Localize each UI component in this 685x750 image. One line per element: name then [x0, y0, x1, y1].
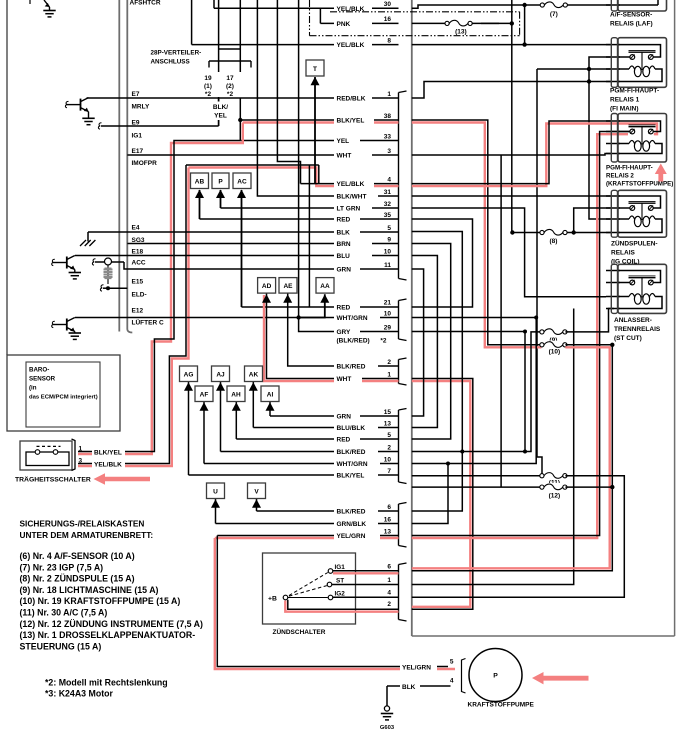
connector AI	[261, 386, 279, 402]
ECM/PCM left wall (double line)	[118, 0, 120, 332]
connector AE	[279, 278, 297, 294]
svg-text:BARO-: BARO-	[29, 367, 49, 374]
svg-text:(7) Nr. 23 IGP (7,5 A): (7) Nr. 23 IGP (7,5 A)	[20, 562, 104, 572]
svg-text:BLK/WHT: BLK/WHT	[337, 194, 367, 201]
svg-text:ELD-: ELD-	[132, 292, 147, 299]
svg-text:9: 9	[387, 236, 391, 243]
svg-text:1: 1	[387, 577, 391, 584]
nested elbow: BRN9 to pin5	[412, 244, 451, 440]
junction fuse 7 feed	[522, 3, 526, 7]
wire pin1 row continuation to relay1	[412, 82, 612, 99]
svg-text:ZÜNDSPULEN-: ZÜNDSPULEN-	[611, 239, 658, 248]
svg-text:6: 6	[387, 504, 391, 511]
red arrow (fuel pump)	[532, 672, 589, 684]
svg-text:21: 21	[384, 299, 392, 306]
connector AD	[258, 278, 276, 294]
wire E15 row from ELD	[106, 286, 110, 290]
svg-text:4: 4	[450, 678, 454, 685]
wire fuse 8 row to ignition coil relay coil	[512, 232, 611, 234]
wire SG3 BRN pin 9 row	[127, 243, 398, 245]
svg-text:*2: *2	[227, 91, 234, 98]
wire YEL/GRN pump label	[400, 662, 437, 671]
wire vertical V4 from top	[298, 0, 300, 318]
svg-text:PGM-FI-HAUPT-: PGM-FI-HAUPT-	[610, 88, 659, 95]
wire GRN/BLK pin 16 row (to U)	[215, 499, 217, 524]
svg-text:4: 4	[387, 176, 391, 183]
svg-text:E4: E4	[132, 225, 140, 232]
transistor Q3 (E12 driver)	[66, 319, 68, 331]
svg-text:33: 33	[384, 133, 392, 140]
fuse (9)	[544, 328, 563, 336]
svg-text:E17: E17	[132, 148, 144, 155]
svg-text:(8) Nr. 2 ZÜNDSPULE (15 A): (8) Nr. 2 ZÜNDSPULE (15 A)	[20, 574, 135, 584]
svg-text:RED: RED	[337, 217, 351, 224]
svg-text:(KRAFTSTOFFPUMPE): (KRAFTSTOFFPUMPE)	[606, 181, 673, 188]
svg-text:16: 16	[384, 16, 392, 23]
wire ST row	[332, 584, 399, 586]
ground G603	[386, 686, 388, 706]
wire LT GRN pin 32 row	[221, 207, 399, 209]
wire 28P pin 19 lead	[218, 98, 220, 127]
svg-text:BLK/YEL: BLK/YEL	[94, 449, 122, 456]
svg-text:BLK: BLK	[402, 684, 416, 691]
T check connector box	[306, 60, 324, 76]
junction 28P pin17 / BLK-YEL	[238, 118, 242, 122]
wire pin1 WHT row continuation down to ignition +B (red highlighted)	[412, 381, 471, 607]
svg-text:28P-VERTEILER-: 28P-VERTEILER-	[151, 50, 202, 57]
terminal IG1	[328, 569, 333, 574]
wire YEL/BLK inertia row label	[92, 459, 125, 468]
svg-text:2: 2	[387, 601, 391, 608]
svg-text:AE: AE	[283, 283, 293, 290]
svg-text:(2): (2)	[226, 83, 234, 90]
junction fuse 8 right	[572, 230, 576, 234]
svg-text:5: 5	[450, 659, 454, 666]
wire relay1 coil feeds / down to ignition-coil relay coil	[589, 57, 611, 219]
junction relay1 feed	[522, 42, 526, 46]
svg-text:5: 5	[387, 225, 391, 232]
wire ST row continuation	[412, 584, 574, 586]
connector bracket ignition switch pins	[399, 563, 407, 565]
svg-text:17: 17	[226, 75, 234, 82]
svg-text:(10): (10)	[549, 349, 561, 356]
svg-text:GRN: GRN	[337, 414, 352, 421]
svg-text:(13): (13)	[455, 28, 467, 35]
svg-text:BLK/YEL: BLK/YEL	[337, 473, 365, 480]
Traegheitsschalter (inertia switch)	[20, 441, 72, 470]
connector AG	[180, 366, 198, 382]
wire relay2 left contact to YEL/GRN row (red highlighted)	[412, 134, 628, 538]
svg-text:E15: E15	[132, 279, 144, 286]
connector bracket pins 15-7	[399, 409, 407, 411]
relay ignition coil relay	[606, 195, 620, 197]
wire GRY pin 29 row	[299, 318, 399, 332]
svg-text:BLK: BLK	[337, 230, 351, 237]
wire T connector leg to YEL/BLK row	[314, 77, 316, 184]
wire WHT pin 1 row (red highlighted)	[264, 295, 399, 381]
svg-text:(ST CUT): (ST CUT)	[614, 335, 642, 342]
svg-text:ZÜNDSCHALTER: ZÜNDSCHALTER	[273, 627, 326, 636]
svg-text:AK: AK	[249, 371, 259, 378]
svg-text:(FI MAIN): (FI MAIN)	[610, 106, 639, 113]
dashed switch contact lines	[289, 573, 328, 596]
connector AA	[316, 278, 334, 294]
fuse (12)	[544, 483, 563, 491]
svg-text:RED: RED	[337, 437, 351, 444]
wire vertical from relay1 to fuse 11	[537, 69, 542, 476]
svg-text:E18: E18	[132, 249, 144, 256]
svg-text:10: 10	[384, 456, 392, 463]
connector P	[212, 173, 229, 189]
svg-text:6: 6	[387, 563, 391, 570]
wire MRLY/BLK-YEL branch to inertia switch (red highlighted)	[78, 123, 243, 455]
connector U	[207, 483, 225, 499]
svg-text:AB: AB	[195, 178, 205, 185]
ELD sensor (variable resistor)	[105, 258, 112, 265]
wire BLK/WHT pin 31 row	[257, 0, 398, 196]
svg-text:SICHERUNGS-/RELAISKASTEN: SICHERUNGS-/RELAISKASTEN	[20, 519, 145, 529]
svg-text:BLU/BLK: BLU/BLK	[337, 425, 366, 432]
inertia switch bracket	[72, 439, 76, 471]
wire RED pin 21 row	[242, 306, 399, 308]
connector AC	[233, 173, 251, 189]
svg-text:WHT/GRN: WHT/GRN	[337, 315, 368, 322]
wire pump leads	[448, 666, 451, 668]
wire fuse12 right to junction	[565, 486, 612, 488]
wire vertical V3 from top	[277, 0, 300, 184]
svg-text:AJ: AJ	[216, 371, 225, 378]
wire E4 BLK pin 5 row	[88, 231, 399, 233]
wire BLK/RED pin 6 row (to V)	[256, 499, 258, 511]
svg-text:STEUERUNG (15 A): STEUERUNG (15 A)	[20, 641, 102, 651]
svg-text:32: 32	[384, 201, 392, 208]
28P-Verteiler-Anschluss connector	[218, 0, 220, 72]
svg-text:*2: *2	[380, 338, 387, 345]
wire E18 BLU pin 10 row	[75, 255, 399, 257]
svg-text:YEL: YEL	[337, 138, 350, 145]
svg-text:TRÄGHEITSSCHALTER: TRÄGHEITSSCHALTER	[15, 476, 91, 484]
svg-text:38: 38	[384, 113, 392, 120]
connector AH	[227, 386, 245, 402]
svg-text:(13) Nr. 1 DROSSELKLAPPENAKTUA: (13) Nr. 1 DROSSELKLAPPENAKTUATOR-	[20, 630, 196, 640]
wire YEL/GRN pin 13 row to fuel pump (red highlighted)	[215, 538, 455, 669]
transistor Q1 (E7 driver)	[80, 99, 82, 111]
svg-text:PNK: PNK	[337, 21, 351, 28]
wire RED pin 35 row	[200, 218, 399, 220]
fuel pump circle	[469, 649, 522, 702]
svg-text:YEL: YEL	[214, 113, 227, 120]
svg-text:15: 15	[384, 409, 392, 416]
fuse (7)	[545, 1, 564, 9]
svg-text:das ECM/PCM integriert): das ECM/PCM integriert)	[29, 395, 98, 401]
svg-text:8: 8	[387, 37, 391, 44]
wire BLK/YEL pin 38 row (red highlighted)	[243, 121, 399, 123]
svg-text:WHT/GRN: WHT/GRN	[337, 461, 368, 468]
wire WHT pin3 branch down to fuse 12 row	[500, 155, 502, 487]
fuse/relay box left wall	[411, 0, 413, 636]
svg-text:29: 29	[384, 324, 392, 331]
wire YEL pin 33 row	[240, 140, 398, 142]
terminal +B	[283, 595, 288, 600]
wire vertical linking fuse7 row to relay1 row	[524, 5, 526, 45]
fuse (8)	[544, 228, 563, 236]
svg-text:RED: RED	[337, 305, 351, 312]
wire BLK/YEL pin 7 row (to AG)	[188, 382, 190, 476]
svg-text:31: 31	[384, 189, 392, 196]
wire IG1 row (red highlighted)	[333, 572, 399, 574]
svg-text:13: 13	[384, 528, 392, 535]
A/F sensor relay (partial, top)	[606, 4, 620, 6]
wire E17 WHT pin 3 row	[127, 154, 398, 156]
junction fuse 13	[510, 21, 514, 25]
wire pin16/PNK row continuation through fuse 13	[412, 22, 499, 24]
svg-text:AH: AH	[231, 391, 241, 398]
svg-text:(10) Nr. 19 KRAFTSTOFFPUMPE (1: (10) Nr. 19 KRAFTSTOFFPUMPE (15 A)	[20, 596, 181, 606]
svg-text:(6) Nr. 4 A/F-SENSOR (10 A): (6) Nr. 4 A/F-SENSOR (10 A)	[20, 551, 135, 561]
wire GRY pin29 row continuation down to pin2 row	[412, 332, 525, 452]
nested elbow: GRN11 to pin15	[412, 269, 424, 416]
svg-text:1: 1	[387, 91, 391, 98]
svg-text:YEL/BLK: YEL/BLK	[337, 42, 365, 49]
svg-text:KRAFTSTOFFPUMPE: KRAFTSTOFFPUMPE	[468, 702, 535, 709]
svg-text:35: 35	[384, 212, 392, 219]
svg-text:TRENNRELAIS: TRENNRELAIS	[614, 326, 661, 333]
svg-text:(12) Nr. 12 ZÜNDUNG INSTRUMENT: (12) Nr. 12 ZÜNDUNG INSTRUMENTE (7,5 A)	[20, 619, 204, 629]
svg-text:ST: ST	[336, 578, 344, 585]
svg-text:T: T	[313, 66, 317, 73]
connector AB	[191, 173, 209, 189]
svg-text:RELAIS 2: RELAIS 2	[606, 173, 634, 180]
svg-text:*2: Modell mit Rechtslenkung: *2: Modell mit Rechtslenkung	[45, 678, 168, 688]
wire 28P pin 17 lead	[239, 98, 241, 121]
wire BLK/RED pin 2 row	[288, 293, 399, 366]
wire vertical from top through fuse13 junction down to fuse 8 row	[511, 0, 513, 233]
wire WHT/GRN pin10 row continuation down to lower WHT/GRN row	[412, 318, 536, 464]
wire YEL/BLK pin 30 row	[213, 0, 215, 8]
svg-text:AC: AC	[237, 178, 247, 185]
svg-text:LÜFTER C: LÜFTER C	[132, 318, 164, 327]
wire pin38 row continuation down to fuse 10 (red highlighted)	[412, 123, 542, 348]
wire YEL/BLK pin 8 row	[191, 0, 193, 45]
svg-text:RELAIS (LAF): RELAIS (LAF)	[610, 21, 653, 28]
svg-text:U: U	[213, 488, 218, 495]
svg-text:ANSCHLUSS: ANSCHLUSS	[151, 59, 190, 66]
svg-text:(12): (12)	[549, 493, 561, 500]
relay starter cut relay	[606, 270, 620, 272]
connector bracket pins 21/10/29	[399, 299, 407, 301]
svg-text:E7: E7	[132, 91, 140, 98]
connector bracket pins 2/1	[399, 358, 407, 360]
wire link to RED pin 21 row	[308, 165, 310, 307]
svg-text:YEL/GRN: YEL/GRN	[337, 533, 366, 540]
wire fuse10 junction down through fuse12 to IG1	[412, 345, 613, 571]
svg-text:AG: AG	[184, 371, 194, 378]
svg-text:MRLY: MRLY	[132, 104, 150, 111]
svg-text:SG3: SG3	[132, 237, 145, 244]
wire pin30 row continuation to fuse 7 and A/F relay	[412, 5, 612, 8]
wire pin2(BLK/RED) row continuation to fuse 9	[412, 332, 542, 452]
wire pin5 row elbow down through pin2 row to pin6 row	[412, 232, 463, 512]
wire BLK/YEL inertia row label	[92, 447, 125, 456]
wire BLK/RED pin 2 row (to AJ)	[220, 382, 222, 452]
fuse (10)	[544, 341, 563, 349]
svg-text:2: 2	[387, 359, 391, 366]
chassis ground E4	[80, 240, 95, 246]
wire RED pin 5 row (to AH)	[235, 402, 237, 440]
svg-text:WHT: WHT	[337, 153, 352, 160]
wire pin8 row continuation to PGM-FI relay 1	[412, 44, 612, 46]
svg-text:IG1: IG1	[132, 133, 143, 140]
terminal IG2	[328, 595, 333, 600]
dash-dot option boundary	[330, 11, 520, 13]
wire fuse9 to starter cut relay	[565, 309, 614, 332]
svg-text:7: 7	[387, 468, 391, 475]
junction fuse12 right	[610, 485, 614, 489]
connector AF	[195, 386, 213, 402]
fuse/relay box right wall	[674, 0, 676, 636]
svg-text:ACC: ACC	[132, 260, 146, 267]
svg-text:UNTER DEM ARMATURENBRETT:: UNTER DEM ARMATURENBRETT:	[20, 530, 154, 540]
svg-text:30: 30	[384, 1, 392, 8]
svg-text:4: 4	[387, 590, 391, 597]
svg-text:PGM-FI-HAUPT-: PGM-FI-HAUPT-	[606, 165, 653, 172]
wire pin4 row continuation to relay 2 contact (red highlighted)	[412, 124, 657, 187]
svg-text:GRY: GRY	[337, 329, 352, 336]
nested elbow: BLU10 to pin13	[412, 256, 438, 428]
svg-text:3: 3	[387, 148, 391, 155]
svg-text:G603: G603	[380, 725, 395, 731]
svg-text:LT GRN: LT GRN	[337, 206, 361, 213]
svg-text:BLK/YEL: BLK/YEL	[337, 118, 365, 125]
wire pin32 row continuation down to starter-cut relay coil feed	[412, 208, 606, 297]
svg-text:RELAIS 1: RELAIS 1	[610, 97, 640, 104]
fuse (11) row from pin7	[412, 475, 542, 477]
svg-text:AI: AI	[267, 391, 274, 398]
svg-text:P: P	[493, 673, 498, 680]
svg-text:+B: +B	[268, 596, 277, 603]
connector bracket pins 6/16/13	[399, 503, 407, 505]
svg-text:1: 1	[79, 446, 83, 453]
wire BLU/BLK pin 13 row (to AK)	[252, 382, 254, 428]
svg-text:BLK/: BLK/	[213, 104, 228, 111]
fuse (13)	[449, 19, 468, 27]
wire fuse8 junction up to ignition coil relay contact	[574, 208, 612, 233]
Zuendschalter (ignition switch) box	[263, 553, 356, 624]
svg-text:V: V	[254, 488, 259, 495]
wire PNK pin 16 row	[319, 8, 321, 23]
svg-text:P: P	[218, 178, 223, 185]
svg-text:RED/BLK: RED/BLK	[337, 96, 366, 103]
wire IG2 row	[333, 596, 399, 598]
wire IMOFPR YEL/BLK pin 4 row (red highlighted)	[189, 168, 399, 187]
svg-text:YEL/BLK: YEL/BLK	[337, 181, 365, 188]
wire pin31 row continuation to ignition coil relay	[412, 195, 612, 197]
svg-text:11: 11	[384, 262, 391, 269]
wire BLK pump row	[387, 685, 451, 687]
svg-text:BRN: BRN	[337, 241, 351, 248]
fuse/relay box bottom wall	[412, 635, 675, 637]
svg-text:AA: AA	[320, 283, 330, 290]
svg-text:AD: AD	[262, 283, 272, 290]
svg-text:ANLASSER-: ANLASSER-	[614, 317, 652, 324]
svg-text:BLK/RED: BLK/RED	[337, 449, 366, 456]
svg-text:(9) Nr. 18 LICHTMASCHINE (15 A: (9) Nr. 18 LICHTMASCHINE (15 A)	[20, 585, 159, 595]
wire ACC GRN pin 11 row	[95, 261, 105, 263]
svg-text:RELAIS: RELAIS	[611, 250, 636, 257]
wire E7 RED/BLK pin 1 row	[87, 97, 399, 99]
wire +B row (red highlighted)	[285, 601, 398, 612]
svg-text:16: 16	[384, 516, 392, 523]
svg-text:GRN/BLK: GRN/BLK	[337, 521, 367, 528]
svg-text:13: 13	[384, 420, 392, 427]
svg-text:(in: (in	[29, 385, 37, 392]
svg-text:1: 1	[387, 371, 391, 378]
BARO sensor box	[7, 355, 120, 431]
svg-text:IMOFPR: IMOFPR	[132, 160, 158, 167]
svg-text:5: 5	[387, 432, 391, 439]
red arrow (relay 2)	[655, 164, 667, 182]
svg-text:10: 10	[384, 310, 392, 317]
svg-text:IG1: IG1	[335, 564, 346, 571]
wire fuse11 to IG2 row	[412, 476, 625, 598]
svg-text:YEL/BLK: YEL/BLK	[94, 461, 122, 468]
wire AA leg to WHT/GRN junction	[299, 294, 325, 317]
svg-text:E9: E9	[132, 120, 140, 127]
svg-text:BLK/RED: BLK/RED	[337, 364, 366, 371]
transistor fragment top-left with ground	[44, 0, 50, 7]
wire branch to inertia switch YEL/BLK (red highlighted)	[78, 168, 189, 467]
transistor Q2 (E18 driver)	[66, 257, 68, 269]
svg-text:WHT: WHT	[337, 376, 352, 383]
svg-text:10: 10	[384, 248, 392, 255]
svg-text:*2: *2	[205, 91, 212, 98]
ECM outer left border	[6, 0, 8, 355]
terminal ST	[327, 582, 332, 587]
wire E9 row to 28P connector pin 19	[98, 123, 101, 129]
svg-text:*3: K24A3 Motor: *3: K24A3 Motor	[45, 689, 114, 699]
junction fuse 8 left	[510, 230, 514, 234]
svg-text:BLU: BLU	[337, 253, 351, 260]
wire GRN pin 15 row (to AI)	[269, 402, 271, 417]
svg-text:BLK/RED: BLK/RED	[337, 509, 366, 516]
wire WHT pin3 row continuation to relay 2 coil	[412, 154, 612, 156]
connector V	[248, 483, 266, 499]
svg-text:GRN: GRN	[337, 267, 352, 274]
connector AJ	[212, 366, 230, 382]
connector AK	[245, 366, 263, 382]
svg-text:2: 2	[387, 444, 391, 451]
relay PGM-FI main relay 1	[606, 44, 620, 46]
wire WHT/GRN pin 10 row (to AF)	[203, 402, 205, 464]
wire E12 WHT/GRN pin 10 row	[75, 317, 399, 319]
svg-text:E12: E12	[132, 308, 144, 315]
junction fuse10 right	[610, 343, 614, 347]
svg-text:AF: AF	[200, 391, 209, 398]
svg-text:(11) Nr. 30 A/C (7,5 A): (11) Nr. 30 A/C (7,5 A)	[20, 608, 108, 618]
svg-text:(7): (7)	[550, 11, 558, 18]
svg-text:(1): (1)	[204, 83, 212, 90]
junction pin2 row	[460, 450, 464, 454]
wire pin35 row elbow down to pin21 row	[412, 219, 473, 307]
svg-text:AFSHTCR: AFSHTCR	[130, 0, 161, 7]
connector bracket pins 1-11	[399, 91, 407, 93]
wire pin16 row continuation	[412, 464, 448, 524]
svg-text:(8): (8)	[550, 238, 558, 245]
relay PGM-FI main relay 2 (fuel pump)	[606, 120, 620, 122]
wire fuse 12 row	[412, 486, 542, 488]
svg-text:YEL/GRN: YEL/GRN	[402, 664, 431, 671]
red arrow (inertia switch)	[94, 473, 151, 485]
